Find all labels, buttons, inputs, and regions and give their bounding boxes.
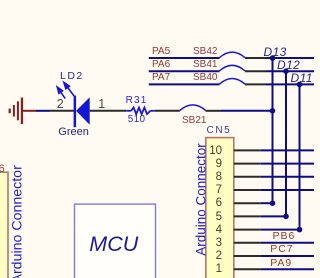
- svg-text:Arduino Connector: Arduino Connector: [194, 143, 209, 256]
- svg-text:Arduino Connector: Arduino Connector: [10, 165, 26, 278]
